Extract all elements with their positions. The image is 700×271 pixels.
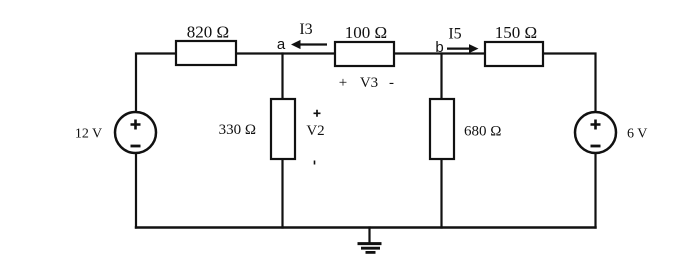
svg-text:680 Ω: 680 Ω — [464, 124, 501, 140]
svg-text:b: b — [435, 39, 443, 56]
resistor R 330 ohm — [219, 99, 295, 159]
current arrow I5 — [447, 26, 479, 54]
label V3 with polarity — [339, 75, 394, 91]
resistor R 680 ohm — [430, 99, 501, 159]
wire ground stem — [368, 228, 370, 244]
wire 820 to 100 through node a — [236, 52, 335, 54]
wire bottom rail — [136, 226, 596, 228]
svg-text:V2: V2 — [306, 123, 324, 139]
resistor R 820 ohm — [176, 23, 236, 66]
wire top-right: 150 over and down to source V4 — [543, 54, 596, 113]
ground — [358, 244, 382, 253]
svg-text:6 V: 6 V — [627, 127, 647, 142]
wire V1 bottom down — [135, 153, 137, 228]
svg-text:330 Ω: 330 Ω — [219, 122, 256, 138]
voltage source 12 V — [75, 112, 156, 153]
resistor R 100 ohm — [335, 23, 394, 66]
voltage source 6 V — [575, 112, 647, 153]
svg-text:820 Ω: 820 Ω — [187, 23, 229, 42]
svg-text:+: + — [339, 75, 347, 91]
label V2 with polarity — [306, 110, 324, 165]
wire 100 to 150 through node b — [394, 52, 485, 54]
svg-text:100 Ω: 100 Ω — [345, 23, 387, 42]
wire 680 bottom to rail — [440, 159, 442, 228]
svg-text:V3: V3 — [360, 75, 378, 91]
wire V4 bottom down — [594, 153, 596, 228]
svg-text:I3: I3 — [299, 21, 312, 38]
wire 330 bottom to rail — [281, 159, 283, 228]
svg-text:I5: I5 — [448, 26, 461, 43]
svg-text:a: a — [277, 36, 286, 53]
current arrow I3 — [291, 21, 327, 49]
svg-text:12 V: 12 V — [75, 127, 102, 142]
wire node a down to 330 — [281, 54, 283, 100]
wire top-left: source V1 up and over to 820 — [136, 54, 176, 113]
resistor R 150 ohm — [485, 23, 543, 66]
svg-text:-: - — [389, 75, 394, 91]
wire node b down to 680 — [440, 54, 442, 100]
svg-text:150 Ω: 150 Ω — [495, 23, 537, 42]
